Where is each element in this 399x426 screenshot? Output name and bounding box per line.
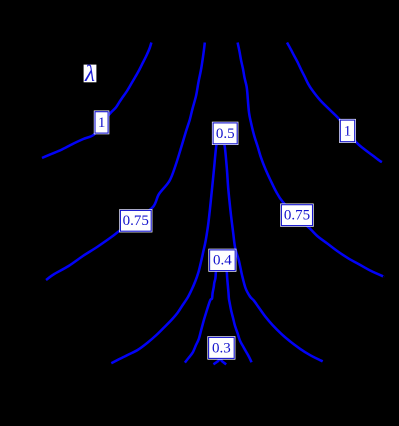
svg-text:λ: λ	[84, 61, 95, 86]
contour curve lambda=1 right branch	[287, 43, 382, 163]
svg-text:0.5: 0.5	[216, 126, 235, 142]
svg-text:0.75: 0.75	[284, 208, 310, 224]
svg-text:0.4: 0.4	[213, 253, 232, 269]
contour curve lambda=0.4 (left+right branches through hidden apex)	[185, 265, 252, 363]
svg-text:0.75: 0.75	[123, 213, 149, 229]
label box 0.3	[208, 337, 235, 359]
contour curve lambda=0.3 (small visible tails below its label)	[213, 357, 226, 364]
contour curve lambda=0.5 (left+right branches through hidden apex)	[111, 138, 322, 363]
label box 0.75 (left)	[120, 210, 152, 232]
svg-text:1: 1	[98, 115, 106, 131]
contour curve lambda=1 left branch	[42, 43, 151, 159]
contour curve lambda=0.75 right branch	[238, 43, 384, 277]
label box 1 (right)	[340, 119, 356, 142]
label box 0.4	[209, 249, 236, 271]
label box 1 (left)	[94, 111, 109, 134]
label box 0.5	[212, 122, 238, 144]
contour curve lambda=0.75 left branch	[46, 43, 205, 281]
label box 0.75 (right)	[281, 204, 314, 226]
svg-text:0.3: 0.3	[212, 340, 231, 356]
svg-text:1: 1	[344, 124, 352, 140]
lambda legend white patch	[84, 65, 97, 83]
